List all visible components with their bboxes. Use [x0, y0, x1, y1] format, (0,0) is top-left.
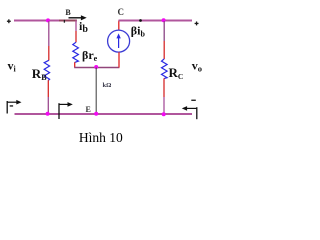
svg-text:RC: RC — [169, 65, 184, 81]
current arrow at emitter terminal — [59, 102, 73, 119]
wire: bottom rail — [15, 113, 193, 115]
junction dot below RB — [46, 112, 50, 116]
tiny annotation near emitter lead — [103, 82, 112, 89]
label C — [118, 7, 125, 17]
label beta-ib — [131, 24, 146, 39]
junction dot below RC — [162, 112, 166, 116]
svg-text:βib: βib — [131, 24, 146, 39]
label E — [86, 105, 91, 114]
junction dot on connector (E node) — [94, 65, 98, 69]
label beta-re — [82, 48, 98, 63]
svg-text:kΩ: kΩ — [103, 82, 112, 89]
label RB — [32, 66, 47, 82]
plus sign top-left — [7, 19, 11, 23]
junction dot at node above RB — [46, 18, 50, 22]
resistor RB — [44, 21, 49, 114]
label ib — [79, 19, 88, 35]
label RC — [169, 65, 184, 81]
wire: emitter connector — [74, 67, 119, 69]
terminal symbol bottom-right with minus — [182, 100, 197, 120]
resistor beta-re — [73, 42, 79, 67]
label vo — [192, 59, 202, 74]
resistor RC — [162, 21, 168, 114]
caption Hinh 10 — [79, 130, 123, 145]
svg-text:Hình 10: Hình 10 — [79, 130, 123, 145]
label vi — [8, 59, 17, 74]
label B — [65, 8, 71, 17]
svg-text:C: C — [118, 7, 125, 17]
wire: base branch down from rail — [75, 21, 77, 43]
current arrow ib — [69, 15, 87, 20]
svg-text:B: B — [65, 8, 71, 17]
node B tick — [63, 20, 65, 23]
svg-text:vi: vi — [8, 59, 17, 74]
current source beta-ib — [108, 21, 130, 68]
svg-text:vo: vo — [192, 59, 202, 74]
wire: top rail left segment — [14, 20, 77, 22]
svg-text:ib: ib — [79, 19, 88, 35]
node dot on top rail (black) — [139, 19, 142, 22]
junction dot at emitter on bottom rail — [94, 112, 98, 116]
plus sign top-right — [195, 22, 199, 26]
terminal symbol bottom-left with minus — [7, 100, 21, 114]
svg-text:βre: βre — [82, 48, 98, 63]
svg-text:E: E — [86, 105, 91, 114]
wire: top rail right segment — [119, 20, 193, 22]
wire: emitter lead down — [95, 68, 97, 114]
junction dot above RC — [162, 18, 166, 22]
